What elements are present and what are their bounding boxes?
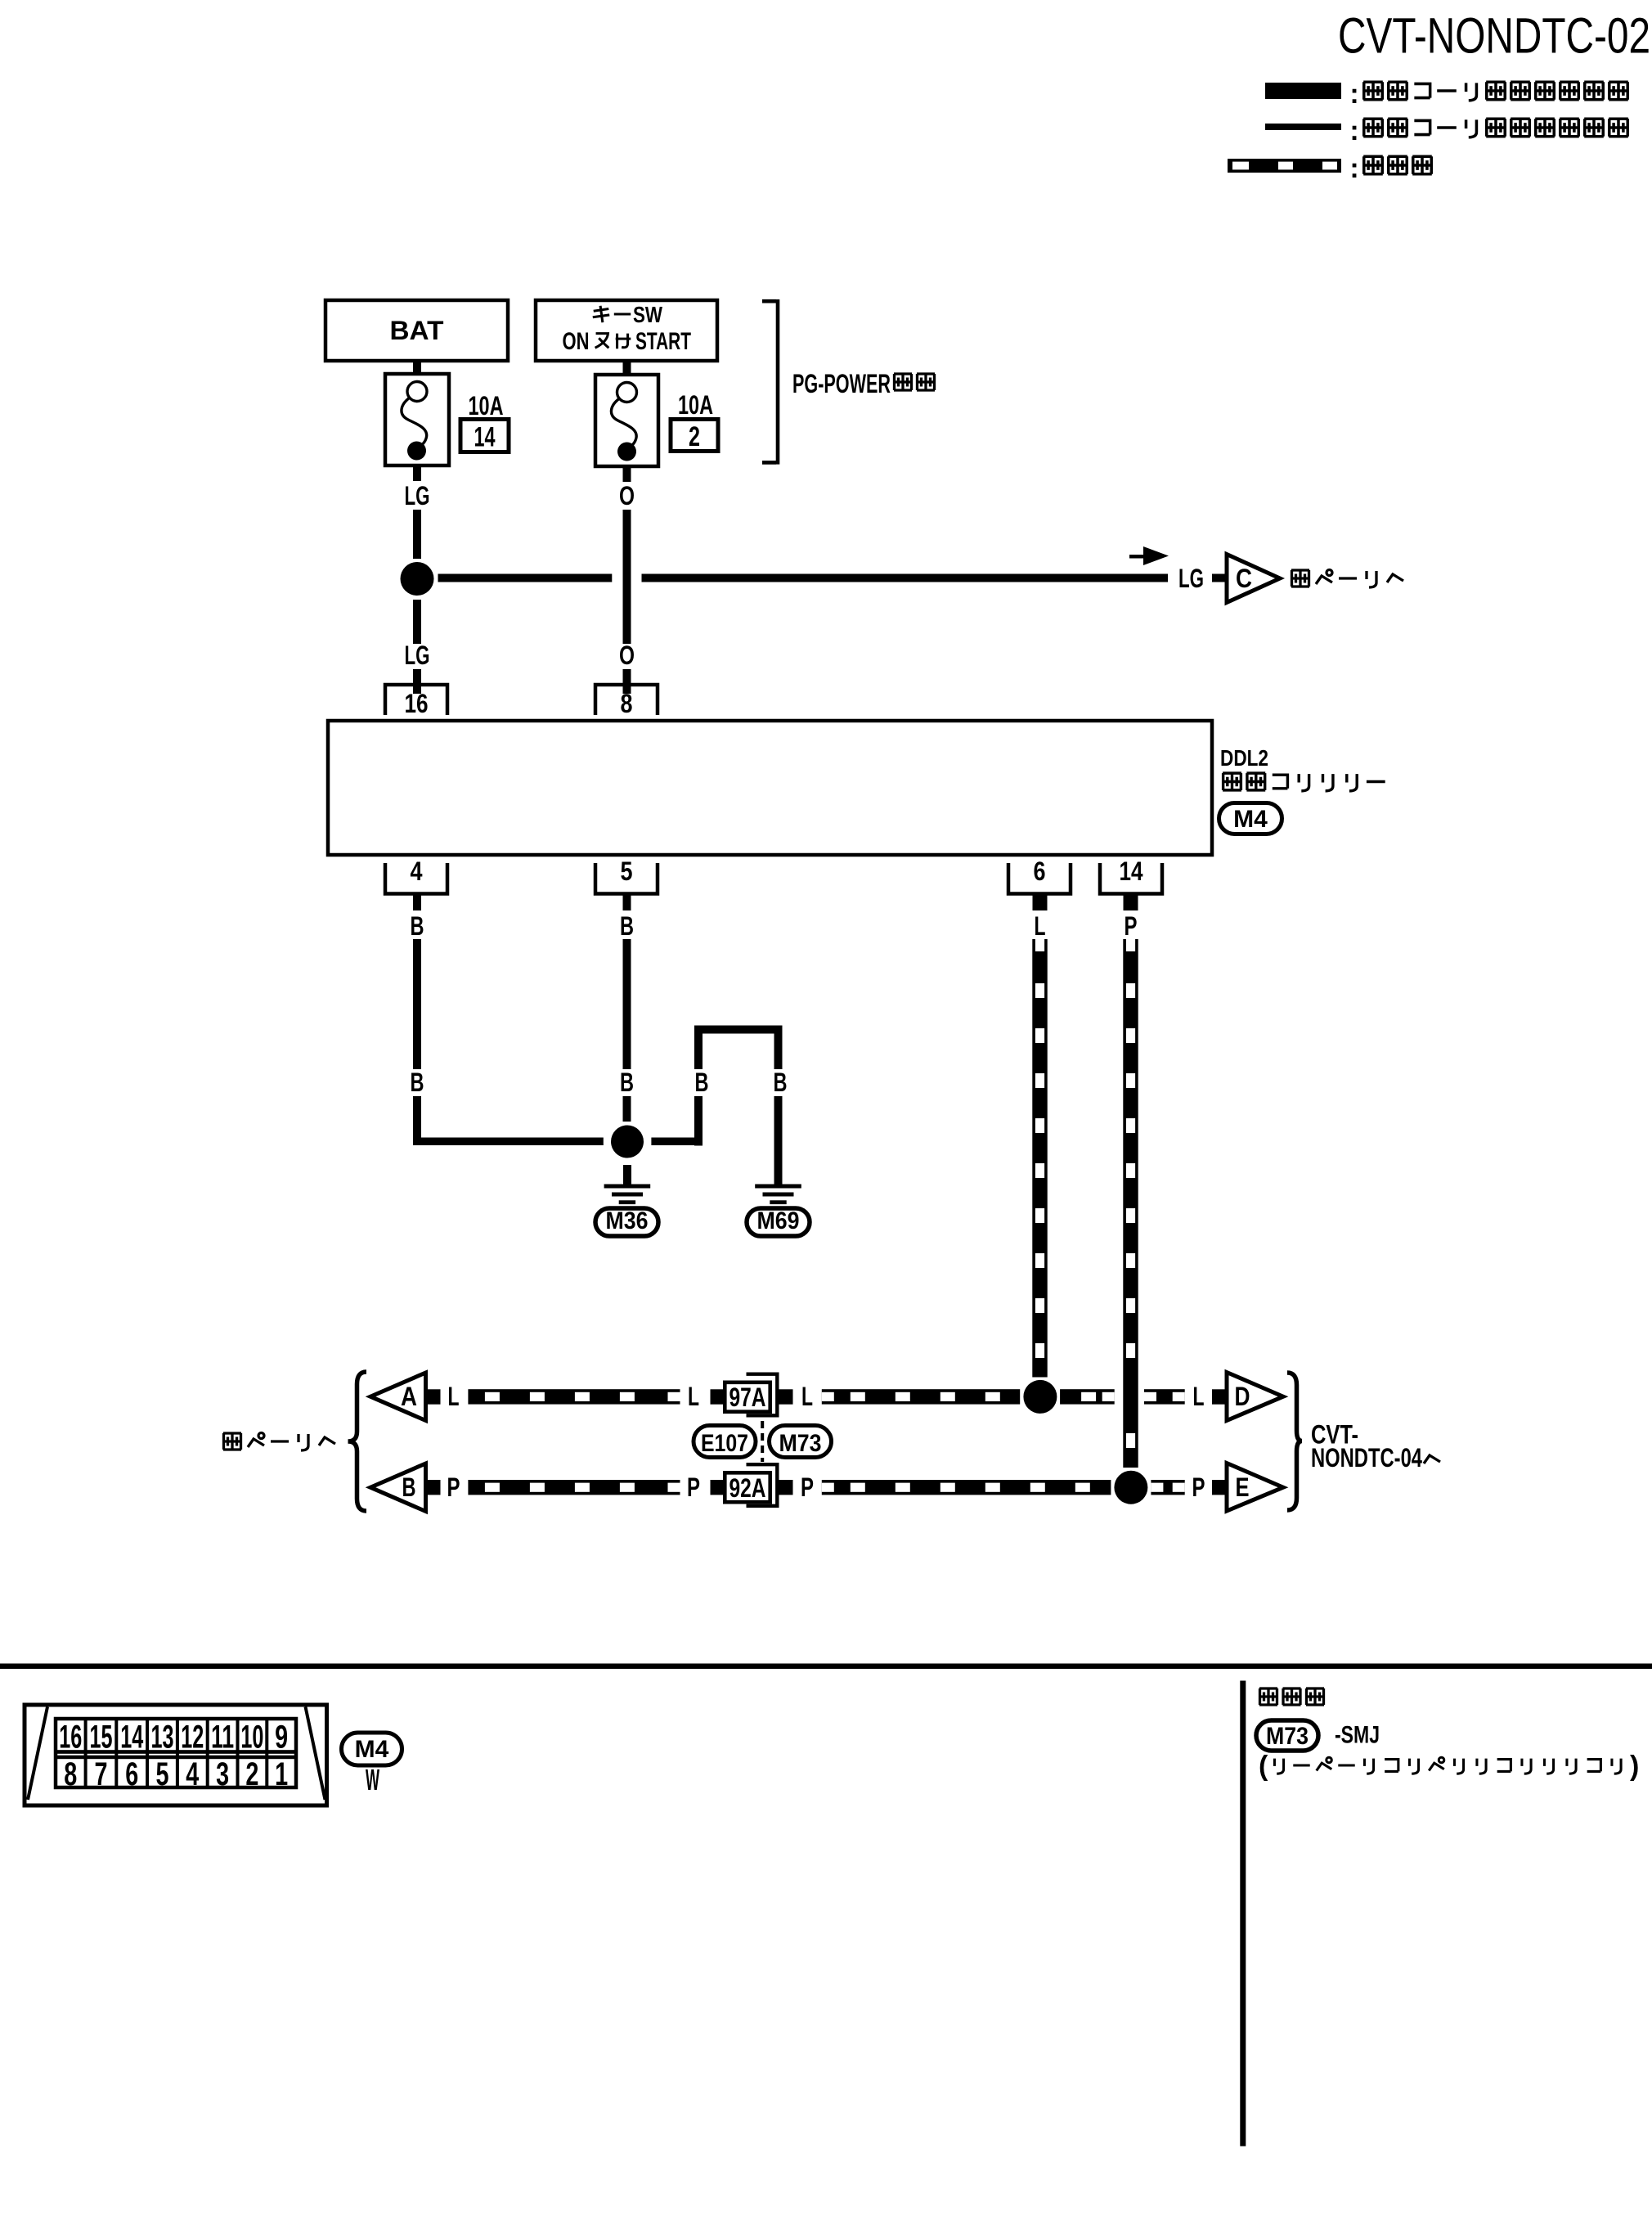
svg-text:5: 5 bbox=[156, 1756, 169, 1792]
svg-text:D: D bbox=[1235, 1382, 1250, 1411]
svg-text:A: A bbox=[401, 1382, 417, 1411]
connector id oval M73 bbox=[770, 1426, 832, 1458]
comm wire stub terminal 14 bbox=[1124, 894, 1138, 911]
wire LG horizontal segment 1 bbox=[438, 574, 613, 582]
svg-text:6: 6 bbox=[1034, 856, 1046, 886]
svg-text:2: 2 bbox=[689, 421, 700, 452]
connector face view M4 outline bbox=[25, 1705, 327, 1805]
svg-text:(: ( bbox=[1259, 1751, 1268, 1782]
communication line L run 2 bbox=[822, 1389, 1020, 1404]
jumper right leg upper bbox=[774, 1034, 783, 1070]
svg-text:B: B bbox=[620, 1068, 634, 1097]
svg-text:NONDTC-04: NONDTC-04 bbox=[1311, 1443, 1422, 1472]
svg-text:B: B bbox=[402, 1472, 416, 1502]
SMJ connector 92A bbox=[725, 1463, 777, 1508]
ground symbol M36 bbox=[604, 1185, 651, 1205]
communication line P run 3 bbox=[1151, 1480, 1184, 1495]
wire block right of 92A bbox=[779, 1480, 793, 1495]
legend communication line sample bbox=[1228, 159, 1341, 173]
svg-text:): ) bbox=[1630, 1751, 1639, 1782]
svg-text:9: 9 bbox=[275, 1720, 288, 1756]
svg-text:M69: M69 bbox=[757, 1207, 800, 1234]
svg-text:P: P bbox=[447, 1472, 460, 1502]
wire key switch to fuse 2 bbox=[623, 361, 631, 375]
wire BAT to fuse 14 bbox=[413, 361, 421, 375]
terminal 8 (open-bottom box) bbox=[595, 685, 658, 718]
wire B to ground junction bbox=[623, 1096, 631, 1122]
svg-text:ON: ON bbox=[563, 328, 590, 355]
communication line P run 1 bbox=[468, 1480, 680, 1495]
svg-text:L: L bbox=[801, 1382, 813, 1411]
svg-text:P: P bbox=[1192, 1472, 1205, 1502]
svg-text:12: 12 bbox=[181, 1720, 204, 1756]
communication line P run 2 bbox=[822, 1480, 1111, 1495]
wire block right of 97A bbox=[779, 1389, 793, 1404]
pin numbers bottom row 8..1 bbox=[64, 1756, 288, 1792]
svg-text:8: 8 bbox=[64, 1756, 77, 1792]
legend label 1 :diagnostic code detectable circuit bbox=[1349, 79, 1627, 110]
wire LG to terminal 16 bbox=[413, 669, 421, 694]
ground symbol M69 bbox=[755, 1185, 801, 1205]
fuse number box 14 bbox=[460, 420, 509, 453]
terminal 6 (open-top box) bbox=[1008, 856, 1071, 894]
communication line L run 3 bbox=[1060, 1389, 1115, 1404]
dashed link 97A to 92A bbox=[761, 1421, 764, 1462]
connector pin grid bbox=[56, 1719, 296, 1787]
jumper left leg upper bbox=[694, 1034, 703, 1070]
legend label 3 :communication line bbox=[1349, 153, 1431, 184]
wire O below fuse 2 bbox=[623, 466, 631, 482]
label PG-POWER参照 bbox=[792, 369, 935, 398]
pin numbers top row 16..9 bbox=[59, 1720, 288, 1756]
wire LG down to junction bbox=[413, 510, 421, 559]
legend thin line sample (DTC non-detectable circuit) bbox=[1265, 124, 1341, 130]
jumper right leg to ground bbox=[774, 1096, 783, 1185]
svg-text:LG: LG bbox=[405, 641, 430, 670]
svg-text:B: B bbox=[411, 1068, 424, 1097]
svg-text:3: 3 bbox=[216, 1756, 229, 1792]
svg-text:L: L bbox=[1035, 911, 1046, 941]
terminal 5 (open-top box) bbox=[595, 856, 658, 894]
svg-text:L: L bbox=[1193, 1382, 1205, 1411]
svg-text:W: W bbox=[366, 1763, 379, 1796]
svg-text:B: B bbox=[411, 911, 424, 941]
svg-text:4: 4 bbox=[411, 856, 423, 886]
wire B horizontal to junction bbox=[413, 1138, 604, 1146]
svg-text:7: 7 bbox=[94, 1756, 107, 1792]
svg-text:14: 14 bbox=[474, 422, 496, 453]
svg-text:8: 8 bbox=[621, 689, 633, 718]
svg-text:LG: LG bbox=[1178, 564, 1204, 593]
page connector triangle B bbox=[370, 1463, 426, 1512]
terminal 4 (open-top box) bbox=[385, 856, 447, 894]
svg-text:LG: LG bbox=[405, 481, 430, 510]
svg-text:M73: M73 bbox=[1266, 1723, 1309, 1750]
wire O down through crossing bbox=[623, 510, 631, 644]
junction dot LG bbox=[401, 562, 434, 596]
svg-text:-SMJ: -SMJ bbox=[1335, 1722, 1380, 1749]
wire block before E bbox=[1212, 1480, 1227, 1495]
svg-text:16: 16 bbox=[59, 1720, 82, 1756]
wire junction to ground M36 bbox=[623, 1165, 631, 1185]
page connector triangle D bbox=[1227, 1373, 1283, 1421]
DDL2 diagnostic connector box M4 bbox=[328, 721, 1212, 855]
connector id oval M4 bbox=[1219, 803, 1282, 834]
arrow right (direction mark) bbox=[1129, 546, 1169, 565]
fuse 2 (10A) bbox=[595, 375, 658, 466]
svg-text:L: L bbox=[448, 1382, 460, 1411]
svg-text:2: 2 bbox=[245, 1756, 258, 1792]
wire O to terminal 8 bbox=[623, 669, 631, 694]
svg-text::: : bbox=[1349, 115, 1358, 146]
legend thick line sample (DTC detectable circuit) bbox=[1265, 83, 1341, 99]
wire LG junction to label bbox=[413, 600, 421, 644]
svg-text:DDL2: DDL2 bbox=[1220, 745, 1268, 771]
reference column divider bbox=[1240, 1681, 1246, 2147]
svg-text:5: 5 bbox=[621, 856, 633, 886]
svg-text:10A: 10A bbox=[678, 390, 713, 420]
svg-text:B: B bbox=[695, 1068, 709, 1097]
junction dot L line bbox=[1023, 1380, 1057, 1414]
power source box BAT bbox=[325, 300, 508, 361]
svg-text:L: L bbox=[688, 1382, 699, 1411]
label CVT-NONDTC-04へ bbox=[1311, 1420, 1440, 1473]
svg-text:SW: SW bbox=[633, 302, 662, 327]
svg-text:10A: 10A bbox=[469, 391, 504, 420]
wire stub to connector C bbox=[1212, 574, 1225, 582]
communication line P vertical (terminal 14 down) bbox=[1123, 939, 1138, 1468]
svg-text:BAT: BAT bbox=[390, 316, 444, 345]
comm wire stub terminal 6 bbox=[1033, 894, 1048, 911]
svg-text:14: 14 bbox=[1120, 856, 1143, 886]
terminal 16 (open-bottom box) bbox=[385, 685, 447, 718]
communication line L run 1 bbox=[468, 1389, 680, 1404]
svg-text:P: P bbox=[687, 1472, 700, 1502]
SMJ connector 97A bbox=[725, 1373, 777, 1418]
svg-text:97A: 97A bbox=[729, 1383, 766, 1412]
wire block left of 97A bbox=[711, 1389, 725, 1404]
svg-text:M36: M36 bbox=[606, 1207, 649, 1234]
svg-text:B: B bbox=[774, 1068, 788, 1097]
label previous page (前ページへ) bbox=[223, 1433, 335, 1451]
wire block after A bbox=[426, 1389, 441, 1404]
reference oval M73 bbox=[1256, 1720, 1318, 1751]
terminal 14 (open-top box) bbox=[1100, 856, 1162, 894]
separator line bbox=[0, 1664, 1652, 1670]
ground junction dot bbox=[611, 1126, 644, 1158]
svg-text:O: O bbox=[619, 481, 635, 510]
svg-text:10: 10 bbox=[240, 1720, 263, 1756]
svg-text:B: B bbox=[620, 911, 634, 941]
page connector triangle A bbox=[370, 1373, 426, 1421]
ground id oval M69 bbox=[747, 1207, 810, 1236]
wire LG below fuse 14 bbox=[413, 465, 421, 481]
wire stub terminal 5 bbox=[623, 894, 631, 911]
wire stub terminal 4 bbox=[413, 894, 421, 911]
brace right (to CVT-NONDTC-04) bbox=[1287, 1373, 1302, 1510]
svg-text:CVT-NONDTC-02: CVT-NONDTC-02 bbox=[1338, 8, 1650, 64]
svg-text::: : bbox=[1349, 153, 1358, 184]
wire B corner segment bbox=[413, 1096, 421, 1145]
legend label 2 :diagnostic code non-detectable circuit bbox=[1349, 115, 1627, 146]
fuse 14 (10A) bbox=[385, 374, 449, 465]
label 参照先 bbox=[1259, 1688, 1324, 1705]
wire LG horizontal segment 2 bbox=[642, 574, 1169, 582]
svg-text:C: C bbox=[1236, 564, 1252, 593]
svg-text:E: E bbox=[1236, 1472, 1250, 1502]
svg-text:13: 13 bbox=[151, 1720, 174, 1756]
svg-text:START: START bbox=[635, 328, 691, 355]
connector id oval E107 bbox=[694, 1426, 756, 1458]
svg-text:P: P bbox=[801, 1472, 814, 1502]
svg-text:92A: 92A bbox=[729, 1473, 766, 1503]
wire B from terminal 5 down bbox=[623, 939, 631, 1069]
svg-text:M4: M4 bbox=[355, 1736, 389, 1763]
svg-text:4: 4 bbox=[186, 1756, 200, 1792]
svg-text:1: 1 bbox=[275, 1756, 288, 1792]
svg-text:6: 6 bbox=[125, 1756, 138, 1792]
jumper left leg lower bbox=[694, 1096, 703, 1146]
svg-text:E107: E107 bbox=[701, 1430, 748, 1457]
svg-text:15: 15 bbox=[89, 1720, 112, 1756]
junction dot P line bbox=[1114, 1471, 1147, 1504]
svg-text:M4: M4 bbox=[1233, 806, 1268, 833]
svg-text:14: 14 bbox=[120, 1720, 143, 1756]
label (super multiple junction) bbox=[1259, 1751, 1639, 1782]
label 診断コネクター bbox=[1223, 773, 1385, 791]
svg-text:11: 11 bbox=[211, 1720, 234, 1756]
bracket PG-POWER reference bbox=[762, 299, 778, 465]
ground id oval M36 bbox=[595, 1207, 658, 1236]
label to next page (次ページへ) bbox=[1291, 570, 1403, 588]
connector id oval M4 (face view) bbox=[342, 1733, 402, 1765]
power source box key switch ON or START bbox=[536, 300, 717, 361]
brace left (from previous page) bbox=[348, 1372, 367, 1511]
communication line L vertical (terminal 6 down) bbox=[1032, 939, 1047, 1378]
svg-text:O: O bbox=[619, 641, 635, 670]
wire block after B bbox=[426, 1480, 441, 1495]
svg-text:M73: M73 bbox=[779, 1430, 822, 1457]
svg-text:P: P bbox=[1125, 911, 1138, 941]
jumper top bar bbox=[694, 1026, 783, 1034]
page connector triangle E bbox=[1227, 1463, 1283, 1512]
wire B from terminal 4 down bbox=[413, 939, 421, 1069]
communication line L run 4 bbox=[1144, 1389, 1185, 1404]
page connector triangle C bbox=[1227, 555, 1280, 603]
wire jumper right of junction bbox=[651, 1138, 703, 1146]
fuse number box 2 bbox=[671, 420, 718, 453]
wire block left of 92A bbox=[711, 1480, 725, 1495]
svg-text::: : bbox=[1349, 79, 1358, 110]
svg-text:PG-POWER: PG-POWER bbox=[792, 369, 891, 398]
wire block before D bbox=[1212, 1389, 1227, 1404]
svg-text:16: 16 bbox=[405, 689, 429, 718]
